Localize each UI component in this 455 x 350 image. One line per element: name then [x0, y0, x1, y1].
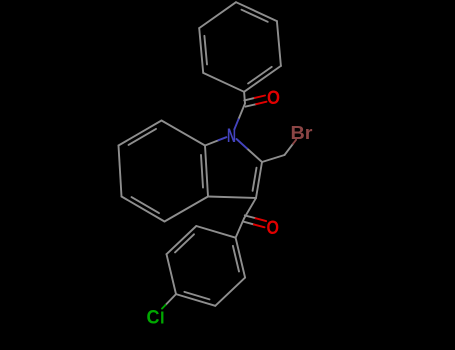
- wire P3=P4 inner: [242, 10, 268, 22]
- wire C7a-N1: [205, 140, 219, 145]
- wire P1=P2 inner: [248, 67, 272, 84]
- wire P3-P4: [236, 2, 277, 21]
- wire C3a-C7a: [205, 146, 208, 197]
- svg-text:Br: Br: [291, 123, 313, 143]
- wire C2-CH2: [262, 155, 285, 162]
- svg-text:N: N: [227, 125, 236, 147]
- wire P4-P5: [199, 2, 236, 28]
- wire C5=C4 inner: [132, 197, 160, 213]
- wire C2=C3 inner: [253, 168, 257, 191]
- svg-text:Cl: Cl: [147, 307, 165, 329]
- svg-text:O: O: [267, 217, 280, 239]
- wire Q5-Q6: [167, 226, 197, 254]
- wire CO2=O2: [243, 222, 254, 225]
- wire Q6-Q1: [196, 226, 235, 238]
- wire P6-P1: [203, 73, 244, 92]
- wire CO1=O1: [246, 104, 256, 106]
- wire P1-P2: [244, 66, 281, 92]
- wire P5=P6 inner: [204, 36, 207, 65]
- wire C3-C3a: [208, 197, 256, 199]
- wire P5-P6: [199, 28, 203, 73]
- wire C2=C3: [256, 162, 262, 198]
- wire Q3=Q4 inner: [184, 292, 209, 300]
- wire P2-P3: [277, 21, 281, 66]
- wire CH2-Br: [285, 144, 294, 155]
- wire Q4-Q5: [167, 254, 177, 294]
- wire C6-C5: [119, 146, 122, 197]
- wire Q1=Q2 inner: [233, 246, 239, 272]
- wire C2-N1: [247, 149, 262, 163]
- wire CO2-Q1: [236, 219, 244, 238]
- wire CO1-P1: [243, 92, 246, 104]
- wire C3a=C7a inner: [201, 155, 203, 188]
- wire C5-C4: [122, 197, 165, 222]
- wire Q3-Q4: [176, 294, 215, 306]
- wire Q1-Q2: [236, 238, 246, 278]
- wire C7a-C7: [162, 121, 206, 146]
- wire Q4-Cl: [166, 294, 177, 305]
- wire Q5=Q6 inner: [175, 234, 194, 252]
- wire C7-C6: [119, 121, 162, 146]
- wire C3-CO2: [244, 198, 256, 219]
- wire C4-C3a: [165, 197, 209, 222]
- svg-text:O: O: [267, 87, 280, 109]
- wire Q2-Q3: [215, 278, 245, 306]
- wire CO1-N1: [239, 104, 246, 120]
- wire C7=C6 inner: [129, 129, 157, 145]
